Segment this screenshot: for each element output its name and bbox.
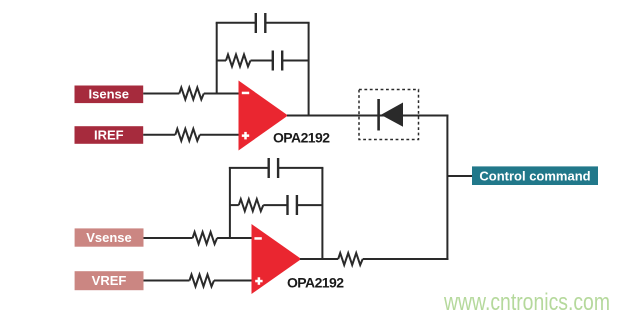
input label VREF bbox=[75, 271, 144, 290]
output label Control command bbox=[472, 166, 598, 185]
resistor R7 bbox=[338, 253, 363, 265]
capacitor C3 bbox=[269, 158, 278, 178]
resistor R3 bbox=[226, 55, 251, 67]
input label IREF bbox=[75, 126, 144, 144]
svg-text:OPA2192: OPA2192 bbox=[287, 275, 344, 291]
wire R5 to U2 non-inverting input bbox=[214, 280, 254, 282]
wire R1 to U1 inverting input bbox=[204, 93, 241, 95]
wire R3 to C2 bbox=[251, 60, 273, 62]
resistor R1 bbox=[179, 88, 204, 100]
wire U2 output to R7 bbox=[300, 258, 338, 260]
wire U2 feedback left vertical bbox=[229, 167, 231, 239]
wire U1 inner branch left segment bbox=[217, 60, 226, 62]
dashed box around D1 bbox=[359, 90, 419, 140]
wire U1 feedback left vertical bbox=[216, 23, 218, 95]
wire U2 inner branch left segment bbox=[230, 204, 239, 206]
wire vertical bus to U2 output bbox=[446, 115, 448, 261]
wire C4 to feedback right vertical bbox=[297, 204, 323, 206]
wire U1 output to node bbox=[287, 115, 448, 117]
wire R2 to U1 non-inverting input bbox=[200, 134, 241, 136]
svg-text:Vsense: Vsense bbox=[86, 230, 132, 245]
input label Isense bbox=[75, 86, 144, 104]
resistor R6 bbox=[239, 199, 263, 211]
capacitor C2 bbox=[273, 51, 282, 71]
wire U1 feedback right vertical bbox=[308, 23, 310, 117]
resistor R2 bbox=[175, 129, 200, 141]
wire U2 feedback top left segment bbox=[229, 167, 269, 169]
wire U2 feedback right vertical bbox=[321, 168, 323, 260]
wire U1 feedback top right segment bbox=[265, 22, 309, 24]
capacitor C4 bbox=[288, 195, 297, 215]
wire VREF to R5 bbox=[144, 280, 190, 282]
wire C2 to feedback right vertical bbox=[282, 60, 308, 62]
wire IREF to R2 bbox=[143, 134, 175, 136]
op-amp U2 bbox=[252, 224, 302, 294]
wire R7 to vertical bus bbox=[363, 258, 449, 260]
capacitor C1 bbox=[256, 13, 265, 33]
svg-text:VREF: VREF bbox=[92, 273, 127, 288]
wire U2 feedback top right segment bbox=[278, 167, 323, 169]
svg-text:OPA2192: OPA2192 bbox=[273, 130, 330, 146]
resistor R5 bbox=[190, 275, 215, 287]
svg-text:Isense: Isense bbox=[89, 87, 129, 102]
svg-text:www.cntronics.com: www.cntronics.com bbox=[443, 289, 610, 316]
wire stub to Control command bbox=[447, 175, 472, 177]
input label Vsense bbox=[75, 228, 144, 246]
op-amp U1 bbox=[239, 81, 289, 151]
wire U1 feedback top left segment bbox=[216, 22, 256, 24]
diode D1 bbox=[377, 99, 403, 131]
svg-text:Control command: Control command bbox=[479, 168, 590, 183]
wire Isense to R1 bbox=[143, 93, 179, 95]
wire Vsense to R4 bbox=[144, 237, 193, 239]
wire R6 to C4 bbox=[263, 204, 287, 206]
svg-text:IREF: IREF bbox=[94, 127, 124, 142]
wire R4 to U2 inverting input bbox=[217, 237, 253, 239]
resistor R4 bbox=[193, 232, 218, 244]
wire through dashed box bbox=[359, 115, 419, 117]
